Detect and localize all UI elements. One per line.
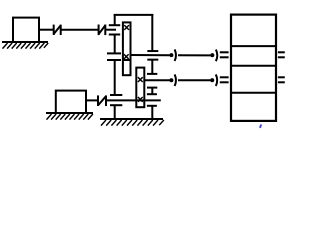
gear G1 on input shaft 1	[109, 25, 120, 34]
blue cursor tick	[260, 125, 261, 128]
motor M2 body	[56, 91, 86, 113]
fixed gear mark x1 on block B1	[124, 25, 129, 30]
gear G4 on right gearbox shaft (middle)	[147, 74, 157, 88]
gear G3 on right gearbox shaft (upper)	[147, 51, 158, 60]
bottom roll right neck bars	[278, 77, 285, 82]
gear G2 on left gearbox shaft	[107, 53, 121, 60]
bottom roll body line	[231, 92, 276, 94]
coupling C3	[98, 95, 106, 106]
universal joint U2 on upper spindle	[210, 50, 217, 62]
gear G6 on input shaft 4	[110, 95, 122, 105]
ground under gearbox	[100, 119, 164, 126]
top roll neck bars	[220, 52, 229, 57]
right gearbox shaft (vertical) segments	[151, 60, 153, 119]
shaft 1 segment b (coupling C1 to coupling C2)	[62, 29, 99, 31]
mill stand housing	[231, 15, 276, 121]
upper spindle shaft 2 (to top roll)	[131, 54, 210, 56]
top roll right neck bars	[278, 52, 285, 57]
motor M1 body	[13, 18, 39, 42]
coupling C2	[99, 25, 106, 36]
ground under motor M2	[46, 113, 93, 120]
bottom roll neck bars	[220, 77, 229, 82]
shaft 4 segment a (motor M2 to coupling C3)	[86, 99, 97, 101]
universal joint U3 on lower spindle	[169, 74, 176, 86]
shaft 1 segment c (coupling C2 to gear G1)	[106, 29, 116, 31]
universal joint U4 on lower spindle	[210, 74, 217, 86]
ground under motor M1	[2, 42, 48, 49]
top roll body line	[231, 45, 276, 47]
fixed gear mark x2 on block B2	[138, 97, 143, 102]
gear G5 on right gearbox shaft (lower)	[147, 94, 157, 106]
gear block B2 (with fixed-connection marks)	[136, 68, 144, 108]
gear block B1 (with fixed-connection marks)	[123, 22, 131, 75]
lower spindle shaft 3 (to bottom roll)	[144, 79, 211, 81]
shaft 1 segment a (motor M1 to coupling C1)	[39, 29, 53, 31]
middle roll body line	[231, 65, 276, 67]
shaft 4 segment b (through gear G6 and block B2)	[107, 99, 161, 101]
coupling C1	[54, 25, 61, 35]
universal joint U1 on upper spindle	[169, 49, 176, 61]
frame bracket over gearbox	[114, 14, 154, 51]
fixed gear mark x2 on block B1	[124, 54, 129, 59]
fixed gear mark x1 on block B2	[138, 77, 143, 82]
left gearbox shaft (vertical) segments	[114, 35, 116, 120]
